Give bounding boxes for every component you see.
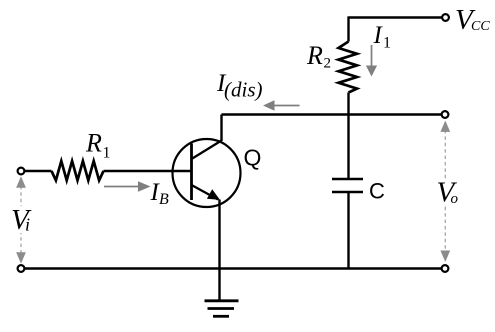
wire VCC horizontal (349, 16, 443, 18)
transistor Q1 base bar (190, 144, 193, 201)
wire R2 to capacitor through rail (347, 93, 349, 179)
label R1 (85, 129, 111, 162)
current arrow I1 (366, 45, 377, 77)
svg-text:CC: CC (471, 19, 490, 34)
svg-text:1: 1 (103, 145, 111, 162)
wire emitter down to ground (218, 200, 220, 301)
svg-text:R: R (306, 41, 323, 70)
label I1 (373, 22, 392, 52)
resistor R1 (52, 161, 104, 180)
transistor Q1 collector stroke (192, 141, 222, 160)
wire capacitor to bottom rail (347, 193, 349, 269)
wire bottom rail (25, 267, 442, 269)
label I(dis) (216, 70, 263, 102)
current arrow IB (104, 181, 151, 192)
label Vi (11, 204, 32, 236)
node Vo+ terminal (442, 111, 449, 118)
wire top rail collector to Vo+ (222, 113, 442, 115)
current arrow I(dis) (263, 100, 300, 111)
label IB (150, 179, 170, 208)
node VCC terminal (442, 14, 449, 21)
label backing Vi (10, 206, 34, 233)
capacitor C top plate (332, 178, 363, 181)
transistor Q1 emitter stroke with arrow (192, 185, 219, 200)
svg-text:C: C (369, 178, 385, 203)
svg-text:Q: Q (244, 145, 262, 171)
label R2 (306, 41, 331, 72)
node Vi+ terminal (18, 168, 25, 175)
svg-text:1: 1 (383, 35, 391, 52)
label VCC (455, 4, 490, 36)
voltage arrow Vo dashed (440, 121, 450, 262)
wire R1 to base (104, 170, 192, 172)
capacitor C bottom plate (332, 191, 363, 194)
label backing Vo (436, 180, 461, 206)
voltage arrow Vi dashed (16, 176, 26, 263)
wire input to R1 (25, 170, 52, 172)
ground symbol (205, 301, 239, 317)
svg-text:(dis): (dis) (224, 78, 263, 102)
svg-text:B: B (159, 191, 169, 208)
transistor Q1 circle (173, 139, 241, 207)
wire collector up (220, 115, 222, 142)
svg-text:I: I (373, 22, 384, 49)
svg-text:o: o (451, 191, 459, 207)
node Vi- terminal (18, 265, 25, 272)
svg-text:2: 2 (324, 56, 332, 72)
svg-text:i: i (25, 215, 30, 235)
label Vo (437, 177, 459, 209)
node Vo- terminal (442, 265, 449, 272)
resistor R2 (339, 42, 358, 93)
svg-text:R: R (85, 129, 102, 158)
wire VCC to R2 (347, 16, 349, 41)
